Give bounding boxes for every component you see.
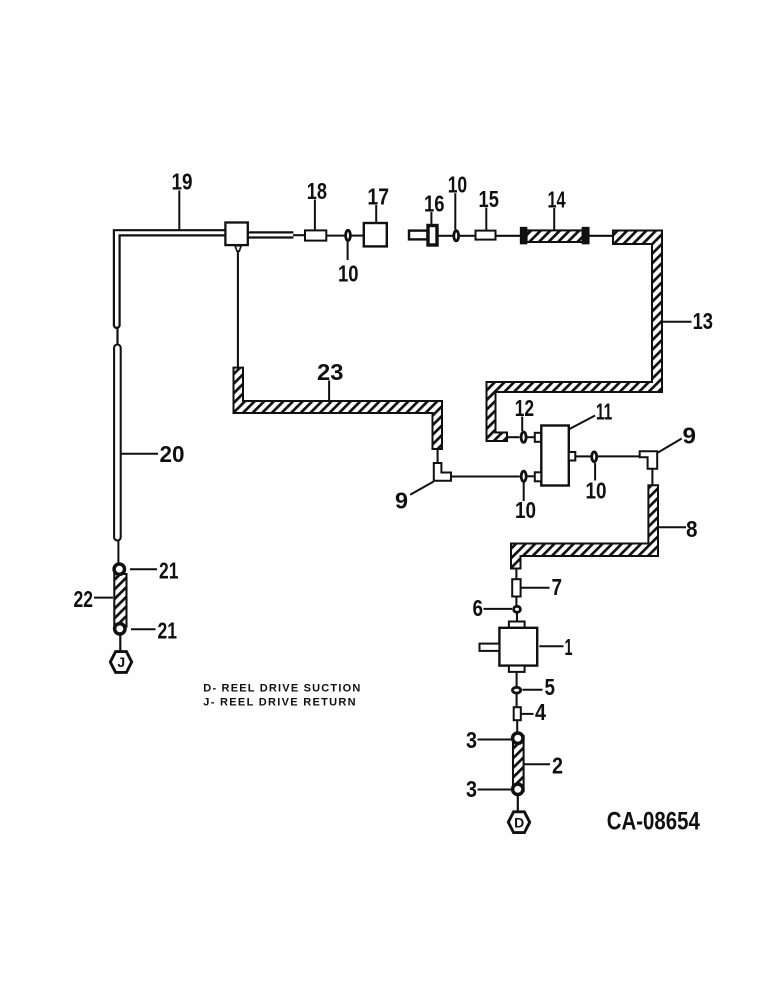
pipe 13: [487, 231, 663, 442]
junction block: [225, 223, 247, 246]
svg-text:9: 9: [683, 422, 697, 448]
leader 12: [521, 417, 523, 431]
leader 21 upper: [130, 568, 157, 570]
leader 10 right: [594, 463, 596, 481]
wire block to hose 23: [237, 251, 239, 368]
pipe 8: [511, 485, 658, 568]
hose 2: [513, 736, 524, 791]
fitting 16 body: [428, 226, 437, 246]
motor 1 body: [499, 628, 537, 666]
svg-text:3: 3: [466, 776, 477, 802]
svg-text:21: 21: [158, 617, 178, 643]
svg-text:14: 14: [548, 186, 566, 212]
wire O-ring to valve lower port: [527, 475, 535, 477]
svg-text:15: 15: [479, 186, 500, 212]
wire 16 to O-ring 10: [439, 235, 453, 237]
swivel fitting 3 (lower): [513, 784, 523, 794]
svg-text:18: 18: [307, 178, 327, 204]
svg-text:D- REEL DRIVE SUCTION: D- REEL DRIVE SUCTION: [203, 683, 360, 695]
svg-text:11: 11: [596, 399, 613, 425]
wire hose 20 to swivel 21: [117, 540, 119, 563]
svg-text:20: 20: [160, 441, 185, 467]
leader 11: [569, 416, 595, 430]
leader 13: [662, 321, 692, 323]
wire elbow 9 to O-ring 10 (lower): [451, 475, 520, 477]
leader 7: [521, 587, 550, 589]
wire 4 to swivel 3: [516, 720, 518, 733]
wire O-ring to connector 15: [460, 235, 476, 237]
wire pipe 13 to O-ring 12: [507, 436, 520, 438]
valve port (upper left): [535, 433, 542, 442]
motor 1 top port: [509, 622, 525, 628]
leader 15: [485, 208, 487, 231]
hose 19/20 tube end cap: [114, 325, 120, 328]
svg-text:6: 6: [473, 595, 484, 621]
O-ring 12: [521, 432, 526, 442]
motor 1 bottom port: [509, 666, 525, 672]
tube right of block (lower line): [248, 236, 294, 238]
svg-text:10: 10: [586, 477, 607, 503]
motor 1 shaft: [480, 644, 500, 651]
hose 19 outer line (top horizontal + left vertical): [114, 230, 225, 326]
svg-text:7: 7: [552, 574, 563, 600]
wire swivel 3 to port D: [517, 795, 519, 813]
svg-text:17: 17: [367, 183, 389, 209]
svg-text:D: D: [514, 814, 524, 830]
O-ring 10 (right of valve): [592, 452, 597, 462]
leader 19: [178, 191, 180, 230]
svg-text:12: 12: [515, 395, 534, 421]
leader 8: [659, 526, 686, 528]
tube right of block (upper line): [248, 231, 294, 233]
svg-text:16: 16: [424, 191, 445, 217]
hose 19 inner line: [120, 235, 226, 326]
svg-text:22: 22: [74, 586, 94, 612]
swivel fitting 21 (upper): [114, 564, 124, 574]
svg-text:4: 4: [535, 699, 546, 725]
O-ring 10 (second): [454, 231, 459, 241]
wire 18 to O-ring 10: [326, 235, 345, 237]
elbow fitting 9 (left): [434, 463, 451, 481]
valve port (right): [569, 452, 576, 461]
connector 15: [476, 231, 496, 240]
leader 22: [94, 597, 113, 599]
O-ring 10 (lower left of valve): [521, 471, 526, 481]
svg-text:13: 13: [693, 308, 713, 334]
port J hexagon: [110, 652, 131, 673]
wire pipe 8 to connector 7: [515, 569, 517, 580]
wire swivel 21 to port J: [119, 635, 121, 652]
leader 3 lower: [478, 789, 512, 791]
hose 20 lower tube segment: [114, 345, 121, 541]
wire between hose 20 segments: [116, 327, 118, 347]
svg-text:19: 19: [172, 169, 193, 195]
leader 2: [525, 763, 551, 765]
svg-text:2: 2: [552, 753, 563, 779]
leader 10 lower: [523, 481, 525, 501]
leader 1: [539, 645, 563, 647]
leader 21 lower: [131, 628, 156, 630]
svg-text:9: 9: [395, 488, 408, 514]
wire hose 14 to pipe 13: [589, 235, 613, 237]
leader 4: [521, 713, 534, 715]
wire O-ring to connector 17: [351, 235, 364, 237]
leader 18: [314, 200, 316, 231]
leader 9 left: [410, 482, 433, 495]
wire motor to O-ring 5: [516, 672, 518, 686]
leader 5: [523, 689, 543, 691]
wire elbow to pipe 8: [651, 469, 653, 486]
wire tube to connector 18: [293, 234, 305, 236]
wire 15 to hose 14: [496, 235, 522, 237]
swivel fitting 3 (upper): [513, 733, 523, 743]
wire O-ring 12 to valve port: [527, 436, 535, 438]
leader 17: [375, 205, 377, 223]
leader 10 below circle (top row): [347, 242, 349, 261]
wire O-ring 5 to connector 4: [516, 693, 518, 707]
leader 9 right: [657, 439, 682, 454]
hose 22: [114, 574, 126, 627]
hose 14 right fitting: [582, 228, 588, 244]
connector 7: [512, 579, 520, 596]
connector 4: [514, 707, 521, 720]
hose 14 left fitting: [521, 228, 527, 244]
leader 20: [122, 453, 159, 455]
O-ring 5: [513, 687, 521, 693]
leader 6: [484, 608, 513, 610]
leader 16: [430, 212, 432, 225]
svg-text:23: 23: [317, 359, 343, 385]
svg-text:10: 10: [448, 172, 468, 198]
wire pipe 23 to elbow 9 left: [437, 449, 439, 464]
swivel fitting 21 (lower): [115, 624, 125, 634]
elbow fitting 9 (right): [640, 451, 658, 469]
svg-text:J- REEL DRIVE RETURN: J- REEL DRIVE RETURN: [203, 697, 355, 709]
wire O-ring 6 to motor: [516, 613, 518, 622]
hose 14: [527, 230, 583, 242]
valve port (lower left): [535, 472, 542, 481]
wire O-ring to elbow 9 right: [598, 455, 640, 457]
svg-text:CA-08654: CA-08654: [607, 808, 700, 836]
pipe 23: [234, 368, 443, 449]
svg-text:3: 3: [466, 727, 477, 753]
leader 3 upper: [478, 739, 512, 741]
svg-text:10: 10: [338, 261, 359, 287]
svg-text:10: 10: [515, 497, 536, 523]
svg-text:J: J: [117, 654, 125, 670]
O-ring 10 (first): [346, 230, 351, 240]
wire 7 to O-ring 6: [515, 597, 517, 606]
connector 17: [364, 223, 387, 246]
O-ring 6: [514, 606, 521, 612]
svg-text:1: 1: [565, 634, 573, 660]
svg-text:21: 21: [159, 557, 179, 583]
connector 18: [305, 230, 326, 240]
leader 10 top: [454, 193, 456, 229]
leader 23: [328, 381, 330, 402]
valve 11 body: [541, 426, 569, 486]
block outlet stub: [235, 246, 241, 251]
fitting 16 stem: [409, 231, 428, 240]
leader 14: [553, 208, 555, 230]
wire valve to O-ring 10 (right): [575, 455, 590, 457]
svg-text:5: 5: [545, 674, 556, 700]
svg-text:8: 8: [686, 516, 698, 542]
port D hexagon: [508, 812, 529, 833]
